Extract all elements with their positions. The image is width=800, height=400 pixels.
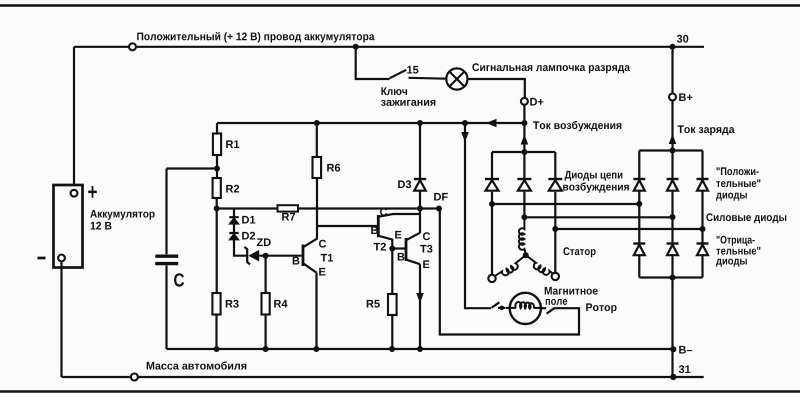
resistor R5 (388, 294, 397, 315)
lamp HL1 charge warning (446, 68, 467, 89)
junction T2 emitter T3 base (389, 246, 395, 252)
rotor slip-ring circle with field winding (506, 293, 541, 324)
wire bridge top bus (639, 149, 702, 151)
label positive battery wire (137, 32, 374, 43)
wire R3 to ground rail (215, 315, 217, 350)
junction bridge bottom bus (670, 275, 676, 281)
bottom page border rule (0, 390, 800, 393)
label T1 C (319, 240, 326, 248)
terminal D+ (521, 98, 528, 105)
label T2 (374, 243, 386, 251)
wire regulator ground rail (167, 348, 674, 350)
label T3 (420, 245, 432, 253)
negative diode ND2 (667, 244, 679, 256)
wire R6 to T1 collector (316, 178, 318, 238)
label chassis ground (147, 361, 247, 369)
diode D2 (229, 233, 238, 240)
wire DF to rotor loop (440, 209, 579, 335)
terminal DF (436, 206, 442, 212)
label T3 E (423, 260, 429, 268)
field diode FD2 (517, 179, 531, 191)
terminal stator A (488, 275, 495, 282)
junction R2 bottom node (214, 206, 220, 212)
wire stator terminal A drop (491, 204, 493, 275)
wire field diode 2 leads (523, 152, 525, 217)
label negative diodes line2 (716, 247, 760, 255)
wire lamp to D+ (468, 79, 525, 98)
terminal on +12V wire (129, 43, 136, 50)
wire rotor feed (465, 123, 491, 308)
arrow excitation current left (486, 119, 497, 127)
junction bridge mid 1 (636, 201, 642, 207)
resistor R1 (213, 134, 221, 156)
junction left brush contact (500, 306, 505, 311)
junction R3 ground (214, 346, 220, 352)
wire D3 to DF node (419, 191, 421, 209)
wire phase C (555, 228, 702, 230)
resistor R6 (313, 157, 322, 178)
wire bridge column 1 (638, 151, 640, 278)
wire T3 base link (392, 247, 405, 249)
label magnetic field line2 (546, 299, 568, 305)
junction phase B (521, 214, 527, 220)
label B+ (679, 93, 692, 101)
junction trio bus centre (521, 149, 527, 155)
wire node to R5 (391, 249, 393, 295)
wire R2 to node (216, 198, 218, 209)
wire T2 base line (317, 225, 378, 227)
label DF (434, 193, 448, 201)
wire zener to T1 base (259, 255, 301, 257)
junction T1 emitter ground (313, 346, 319, 352)
label battery minus (38, 257, 46, 260)
wire T3 collector up (419, 209, 421, 234)
diode D1 (229, 217, 238, 224)
arrow charge current up (669, 134, 677, 144)
wire ignition feed (356, 47, 390, 79)
wire bridge column 3 (701, 151, 703, 278)
label ignition key line1 (381, 87, 407, 95)
label C (174, 273, 184, 287)
label negative diodes line3 (716, 259, 747, 267)
terminal stator C (552, 273, 559, 280)
stator winding B (vertical coil) (519, 217, 526, 253)
label D+ (530, 98, 543, 106)
resistor R7 (278, 205, 299, 211)
diode D3 (414, 179, 426, 191)
wire field trio top bus (492, 151, 555, 153)
label battery name (90, 210, 154, 220)
junction D+ rail (521, 120, 527, 126)
wire phase A (492, 203, 639, 205)
junction R4 ground (263, 346, 269, 352)
negative diode ND3 (697, 244, 709, 256)
junction DF node (417, 206, 423, 212)
node 31 (670, 374, 676, 380)
node B- (670, 346, 676, 352)
transistor T3 (406, 233, 420, 264)
wire stator terminal C drop (554, 229, 556, 273)
wire T3 emitter to ground (419, 264, 421, 349)
wire +12V battery lead (top rail) (74, 46, 704, 48)
node 30 (670, 44, 676, 50)
label T3 C (423, 232, 430, 240)
label field diodes line1 (565, 171, 623, 181)
top page border rule (0, 4, 800, 7)
wire T1 emitter to ground (315, 273, 317, 349)
label D2 (242, 232, 255, 240)
wire phase B (524, 216, 672, 218)
junction bridge mid 2 (670, 214, 676, 220)
wire D1 to D2 (233, 224, 235, 233)
positive diode PD3 (697, 179, 709, 191)
wire B- line (671, 278, 673, 378)
junction phase C (552, 226, 558, 232)
battery GB1 12V (54, 185, 83, 268)
label D3 (398, 180, 411, 188)
arrow charge to D+ up (521, 135, 529, 145)
label R5 (367, 300, 380, 308)
wire field diode 1 leads (491, 152, 493, 204)
label power diodes (706, 213, 786, 223)
label R6 (327, 164, 340, 172)
wire D2 to zener (234, 240, 247, 256)
wire bridge column 2 (671, 151, 673, 278)
junction phase A (489, 201, 495, 207)
wire node to D1 (233, 209, 235, 217)
positive diode PD1 (633, 179, 645, 191)
label battery voltage (91, 222, 112, 230)
wire battery positive lead (73, 47, 75, 190)
wire excitation rail (217, 122, 524, 124)
label T2 B (371, 226, 378, 234)
label magnetic field line1 (545, 287, 598, 295)
junction ignition branch (353, 44, 359, 50)
label T1 E (319, 268, 325, 276)
wire B+ line (671, 47, 673, 151)
label charge current (678, 125, 735, 135)
wire R5 to ground (391, 315, 393, 349)
label ZD (257, 238, 271, 246)
junction R5 ground (389, 346, 395, 352)
label D1 (242, 216, 255, 224)
wire rail to R1 (216, 123, 218, 134)
label T2 E (395, 231, 401, 239)
label R3 (226, 300, 239, 308)
junction D3 top (417, 120, 423, 126)
resistor R3 (212, 293, 220, 315)
terminal B+ (669, 94, 676, 101)
label ignition key line2 (381, 100, 435, 106)
stator winding A (left diagonal coil) (495, 256, 526, 277)
field diode FD1 (485, 179, 499, 191)
resistor R2 (213, 178, 221, 198)
junction R1-R2 node (214, 166, 220, 172)
wire rail to D3 (419, 123, 421, 179)
label rotor (586, 303, 616, 313)
wire node to capacitor branch (167, 167, 218, 169)
junction stator star point (523, 252, 529, 258)
junction R6 top (314, 120, 320, 126)
label R4 (274, 300, 287, 308)
wire node to R3 (216, 209, 218, 294)
wire rail to R6 (316, 123, 318, 157)
label T1 B (293, 257, 300, 265)
field diode FD3 (548, 179, 562, 191)
arrow T3 emitter current down (416, 293, 424, 303)
label excitation current (533, 121, 621, 131)
transistor T2 (378, 214, 420, 249)
wire R2 node to DF (217, 207, 439, 209)
label battery plus (88, 186, 97, 198)
label R2 (226, 185, 239, 193)
label negative diodes line1 (717, 236, 755, 246)
capacitor C (155, 256, 178, 263)
label positive diodes line1 (717, 167, 759, 175)
junction zener-R4 node (263, 253, 269, 259)
wire D+ down (523, 105, 525, 123)
label signal lamp (472, 63, 630, 73)
transistor T1 (303, 238, 318, 272)
label T3 B (398, 253, 405, 261)
arrow rotor feed down (461, 132, 469, 142)
wire D+ to trio bus (523, 123, 525, 152)
label R7 (282, 213, 295, 221)
brush right (541, 308, 555, 313)
junction bridge top bus (670, 148, 676, 154)
wire capacitor top lead (165, 169, 167, 255)
zener diode ZD (244, 247, 259, 265)
stator winding C (right diagonal coil) (526, 256, 553, 275)
label 15 (407, 66, 418, 74)
label T2 C (380, 208, 387, 216)
terminal on ground wire (131, 374, 138, 381)
label positive diodes line3 (716, 193, 747, 201)
brush left (492, 302, 506, 308)
label stator (563, 247, 595, 257)
junction bridge mid 3 (700, 226, 706, 232)
junction T3 emitter ground (417, 346, 423, 352)
junction rotor feed top (462, 120, 468, 126)
wire zener node to R4 (265, 256, 267, 293)
label T1 (321, 254, 333, 262)
label B- (679, 346, 692, 354)
wire field diode 3 leads (554, 152, 556, 229)
label 30 (677, 35, 689, 43)
wire chassis ground (62, 376, 704, 378)
wire bridge bottom bus (639, 276, 702, 278)
wire R1 to R2 (216, 155, 218, 178)
negative diode ND1 (633, 244, 645, 256)
wire capacitor bottom lead (165, 266, 167, 350)
resistor R4 (262, 293, 270, 315)
switch ignition key contact 15 (390, 70, 447, 79)
positive diode PD2 (667, 179, 679, 191)
wire R4 to ground rail (265, 315, 267, 350)
label positive diodes line2 (716, 179, 760, 187)
wire battery negative lead (60, 262, 62, 378)
label 31 (679, 365, 691, 373)
label R1 (226, 140, 239, 148)
label field diodes line2 (563, 182, 629, 192)
